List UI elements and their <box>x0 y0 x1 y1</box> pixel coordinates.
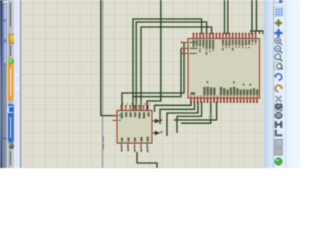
toolbar icon: undo blue circular arrow <box>274 74 282 80</box>
wire net D: vertical to U1 top pin <box>227 0 229 34</box>
U1 bottom pins <box>190 98 257 103</box>
U1 top pin number specks (red) <box>193 43 256 52</box>
toolbar icon: L-shaped tool <box>275 130 283 137</box>
toolbar icon: zoom area magnifier <box>275 54 282 61</box>
wire stub bus to U1 top pin <box>255 31 257 34</box>
wire U1 bottom pin staircase 4 <box>177 102 202 133</box>
taskbar tray segment separator <box>8 142 15 143</box>
U1 top pins <box>193 33 257 39</box>
U1 left pins 1-3 <box>181 41 188 54</box>
pale gap strip <box>14 0 20 168</box>
wire stub bus to U1 top pin <box>259 31 261 34</box>
U1 bottom pin name labels (tiny text ticks) <box>191 81 259 95</box>
wire U1 pin to U2 pin (outer L) <box>133 19 202 110</box>
toolbar icon: grey square 2 <box>275 148 283 155</box>
toolbar icon: zoom out magnifier <box>275 46 282 53</box>
U1 left pin name labels <box>190 42 198 54</box>
left docked dark taskbar strip <box>0 0 2 168</box>
window edge blue line <box>20 0 22 168</box>
wire U1 bottom pin staircase 5 <box>174 102 217 120</box>
blue button caption text <box>10 117 11 138</box>
taskbar button column <box>8 0 15 168</box>
wire U1 left pin 2 to U2 net <box>133 49 181 97</box>
U2 bottom pins <box>121 143 148 148</box>
net label text (rotated) near sheet border <box>103 136 104 150</box>
op IC U1 (microcontroller) body <box>188 39 260 99</box>
wire U2 bottom pin down-right off screen <box>137 152 157 168</box>
wire stub bus to U1 top pin <box>262 31 264 34</box>
pale strip bullet dots <box>15 74 18 77</box>
toolbar icon: cut grey X <box>276 96 282 102</box>
U1 bottom pin number specks (red) <box>190 96 257 97</box>
terminal arrow T2 at U2 right pin <box>155 131 162 136</box>
wire net F: vertical to bus y=31 <box>256 0 258 31</box>
wire U1 bottom pin staircase 2 <box>160 102 195 124</box>
U1 top pin name labels (tiny text ticks) <box>193 40 257 55</box>
schematic drawing overlay <box>0 0 300 168</box>
taskbar button 3 (blue) <box>8 104 15 142</box>
wire net C: vertical to U1 top pin <box>224 0 226 34</box>
toolbar icon: zoom to sheet <box>275 62 283 69</box>
wire U1 bottom pin staircase 6 <box>181 102 211 123</box>
toolbar icon: green ball <box>275 158 282 165</box>
title bar caption text (vertical runs) <box>4 4 5 19</box>
U2 right pins <box>152 121 157 133</box>
title bar lower area darker <box>2 66 8 168</box>
left blue-grey vertical title bar <box>2 0 8 168</box>
orange button green status icon <box>8 59 13 64</box>
wire U1 pin to U2 pin (middle L) <box>136 22 206 110</box>
U2 red pin numbers above top pins <box>122 103 150 104</box>
wire net B: vertical x=161 down, left, to U2 top pin <box>147 0 161 110</box>
wire bus y=31 over U1 right top pins <box>250 30 264 32</box>
wire stub bus to U1 top pin <box>251 31 253 34</box>
U2 top pin name labels <box>121 112 150 118</box>
toolbar icon: redo orange circular arrow <box>275 85 283 91</box>
right toolbar panel <box>264 0 300 168</box>
toolbar icon: pan plus <box>275 29 283 37</box>
taskbar button 1 folder icon <box>9 34 16 44</box>
orange button caption text <box>10 68 11 96</box>
wire U1 bottom pin staircase 3 <box>167 102 198 136</box>
toolbar icon: grey square 1 <box>275 139 283 146</box>
blue button app icon <box>8 106 13 114</box>
terminal arrow T1 at U2 right pin <box>155 119 162 124</box>
wire U1 pin to U2 pin (inner L) <box>141 27 212 110</box>
toolbar icon column <box>0 0 300 168</box>
wire net A: vertical x=101 to U2 left pin <box>101 0 117 116</box>
schematic editor canvas with grid <box>21 0 264 168</box>
toolbar icon: toggle grid <box>274 7 283 16</box>
toolbar icon: origin crosshair <box>275 19 283 27</box>
tray caption text <box>10 151 11 165</box>
U2 bottom pin name labels <box>121 137 149 142</box>
taskbar button 1 caption text <box>10 3 11 27</box>
U2 left pins <box>113 116 118 121</box>
sheet border line (vertical) <box>102 0 103 168</box>
toolbar icon: copy sheets <box>275 104 282 111</box>
U2 top pins <box>121 105 149 110</box>
wire net E: vertical to bus y=31 <box>251 0 253 31</box>
toolbar icon: zoom in magnifier <box>275 38 282 45</box>
toolbar icon: H-shaped tool <box>275 121 283 128</box>
U2 outside bottom labels <box>121 149 148 153</box>
IC U2 body <box>117 111 152 144</box>
taskbar button 1 caption text lower <box>10 45 11 56</box>
wire U1 left pin 1 to U2 top pin <box>122 43 184 111</box>
taskbar button 2 (orange, active) <box>8 58 15 102</box>
toolbar inner groove <box>273 0 274 168</box>
toolbar icon: partial (top, cut off) <box>275 0 283 3</box>
junction crossing mark near (211,117) <box>209 114 213 118</box>
wire U1 bottom pin staircase 1 <box>155 102 192 112</box>
toolbar icon: print/device <box>275 112 283 118</box>
title bar top mini icon <box>3 1 6 4</box>
tray sphere icon <box>9 143 14 149</box>
U2 left pin numbers <box>119 115 121 121</box>
